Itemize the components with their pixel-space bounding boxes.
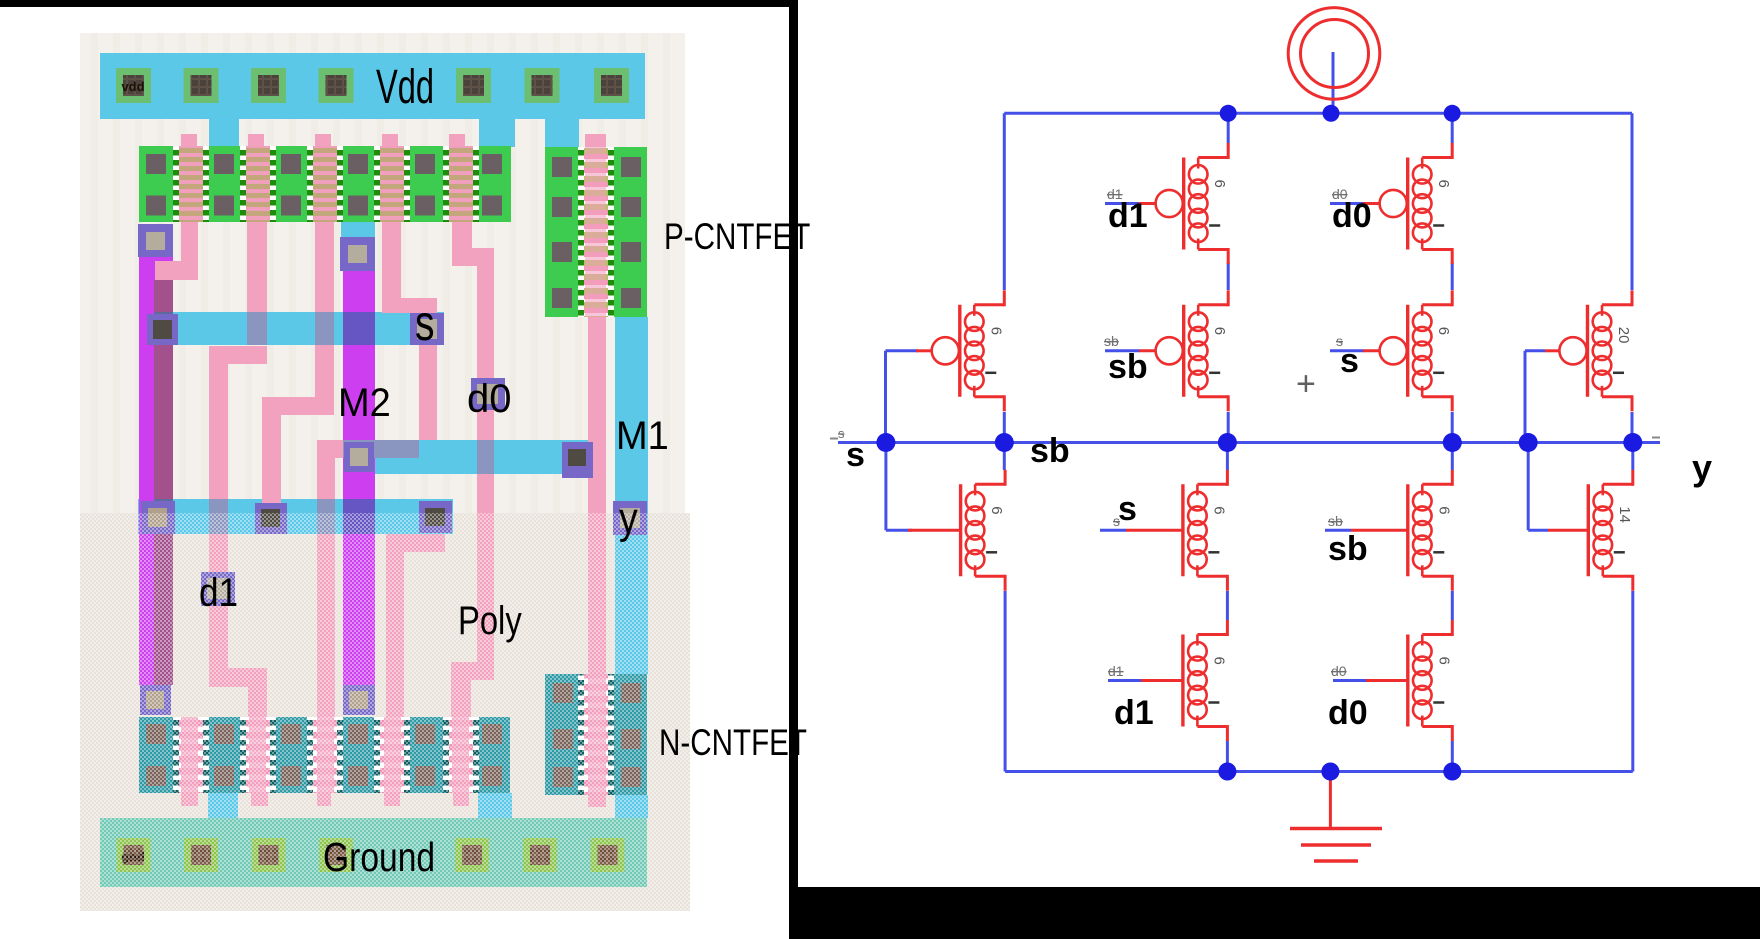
- svg-text:6: 6: [1211, 327, 1228, 335]
- svg-text:6: 6: [1211, 180, 1228, 188]
- svg-text:d0: d0: [1328, 694, 1368, 732]
- svg-text:M1: M1: [616, 414, 669, 458]
- svg-text:Poly: Poly: [458, 598, 522, 643]
- svg-text:d1: d1: [199, 570, 238, 615]
- svg-text:P-CNTFET: P-CNTFET: [664, 217, 810, 258]
- svg-text:d0: d0: [1332, 197, 1372, 235]
- svg-text:d1: d1: [1114, 694, 1154, 732]
- svg-text:sb: sb: [1328, 530, 1368, 568]
- svg-text:d0: d0: [1331, 663, 1347, 679]
- svg-text:+: +: [1296, 365, 1316, 403]
- svg-text:y: y: [619, 493, 638, 543]
- svg-text:sb: sb: [1030, 432, 1070, 470]
- svg-text:d1: d1: [1107, 186, 1123, 202]
- svg-text:d0: d0: [1332, 186, 1348, 202]
- svg-text:Ground: Ground: [323, 834, 435, 880]
- svg-text:s: s: [1118, 490, 1137, 528]
- svg-text:14: 14: [1616, 506, 1633, 523]
- svg-text:M2: M2: [338, 381, 391, 425]
- svg-text:y: y: [1692, 447, 1712, 488]
- svg-text:s: s: [1336, 333, 1343, 349]
- svg-text:Vdd: Vdd: [376, 60, 434, 114]
- svg-text:d0: d0: [467, 377, 512, 421]
- svg-text:6: 6: [1435, 657, 1452, 665]
- svg-text:6: 6: [1435, 180, 1452, 188]
- svg-text:vdd: vdd: [121, 79, 144, 94]
- svg-text:s: s: [1113, 513, 1120, 529]
- svg-text:6: 6: [987, 327, 1004, 335]
- svg-text:d1: d1: [1108, 663, 1124, 679]
- svg-text:sb: sb: [1328, 513, 1343, 529]
- svg-text:s: s: [415, 294, 435, 351]
- svg-text:s: s: [846, 436, 865, 474]
- svg-text:6: 6: [1210, 506, 1227, 514]
- svg-text:6: 6: [1435, 506, 1452, 514]
- svg-text:6: 6: [1210, 657, 1227, 665]
- svg-text:6: 6: [1435, 327, 1452, 335]
- svg-text:6: 6: [988, 506, 1005, 514]
- svg-text:20: 20: [1615, 327, 1632, 344]
- svg-text:sb: sb: [1108, 348, 1148, 386]
- svg-text:sb: sb: [1104, 333, 1119, 349]
- svg-text:d1: d1: [1108, 197, 1148, 235]
- svg-text:N-CNTFET: N-CNTFET: [659, 723, 807, 764]
- svg-text:s: s: [838, 426, 845, 441]
